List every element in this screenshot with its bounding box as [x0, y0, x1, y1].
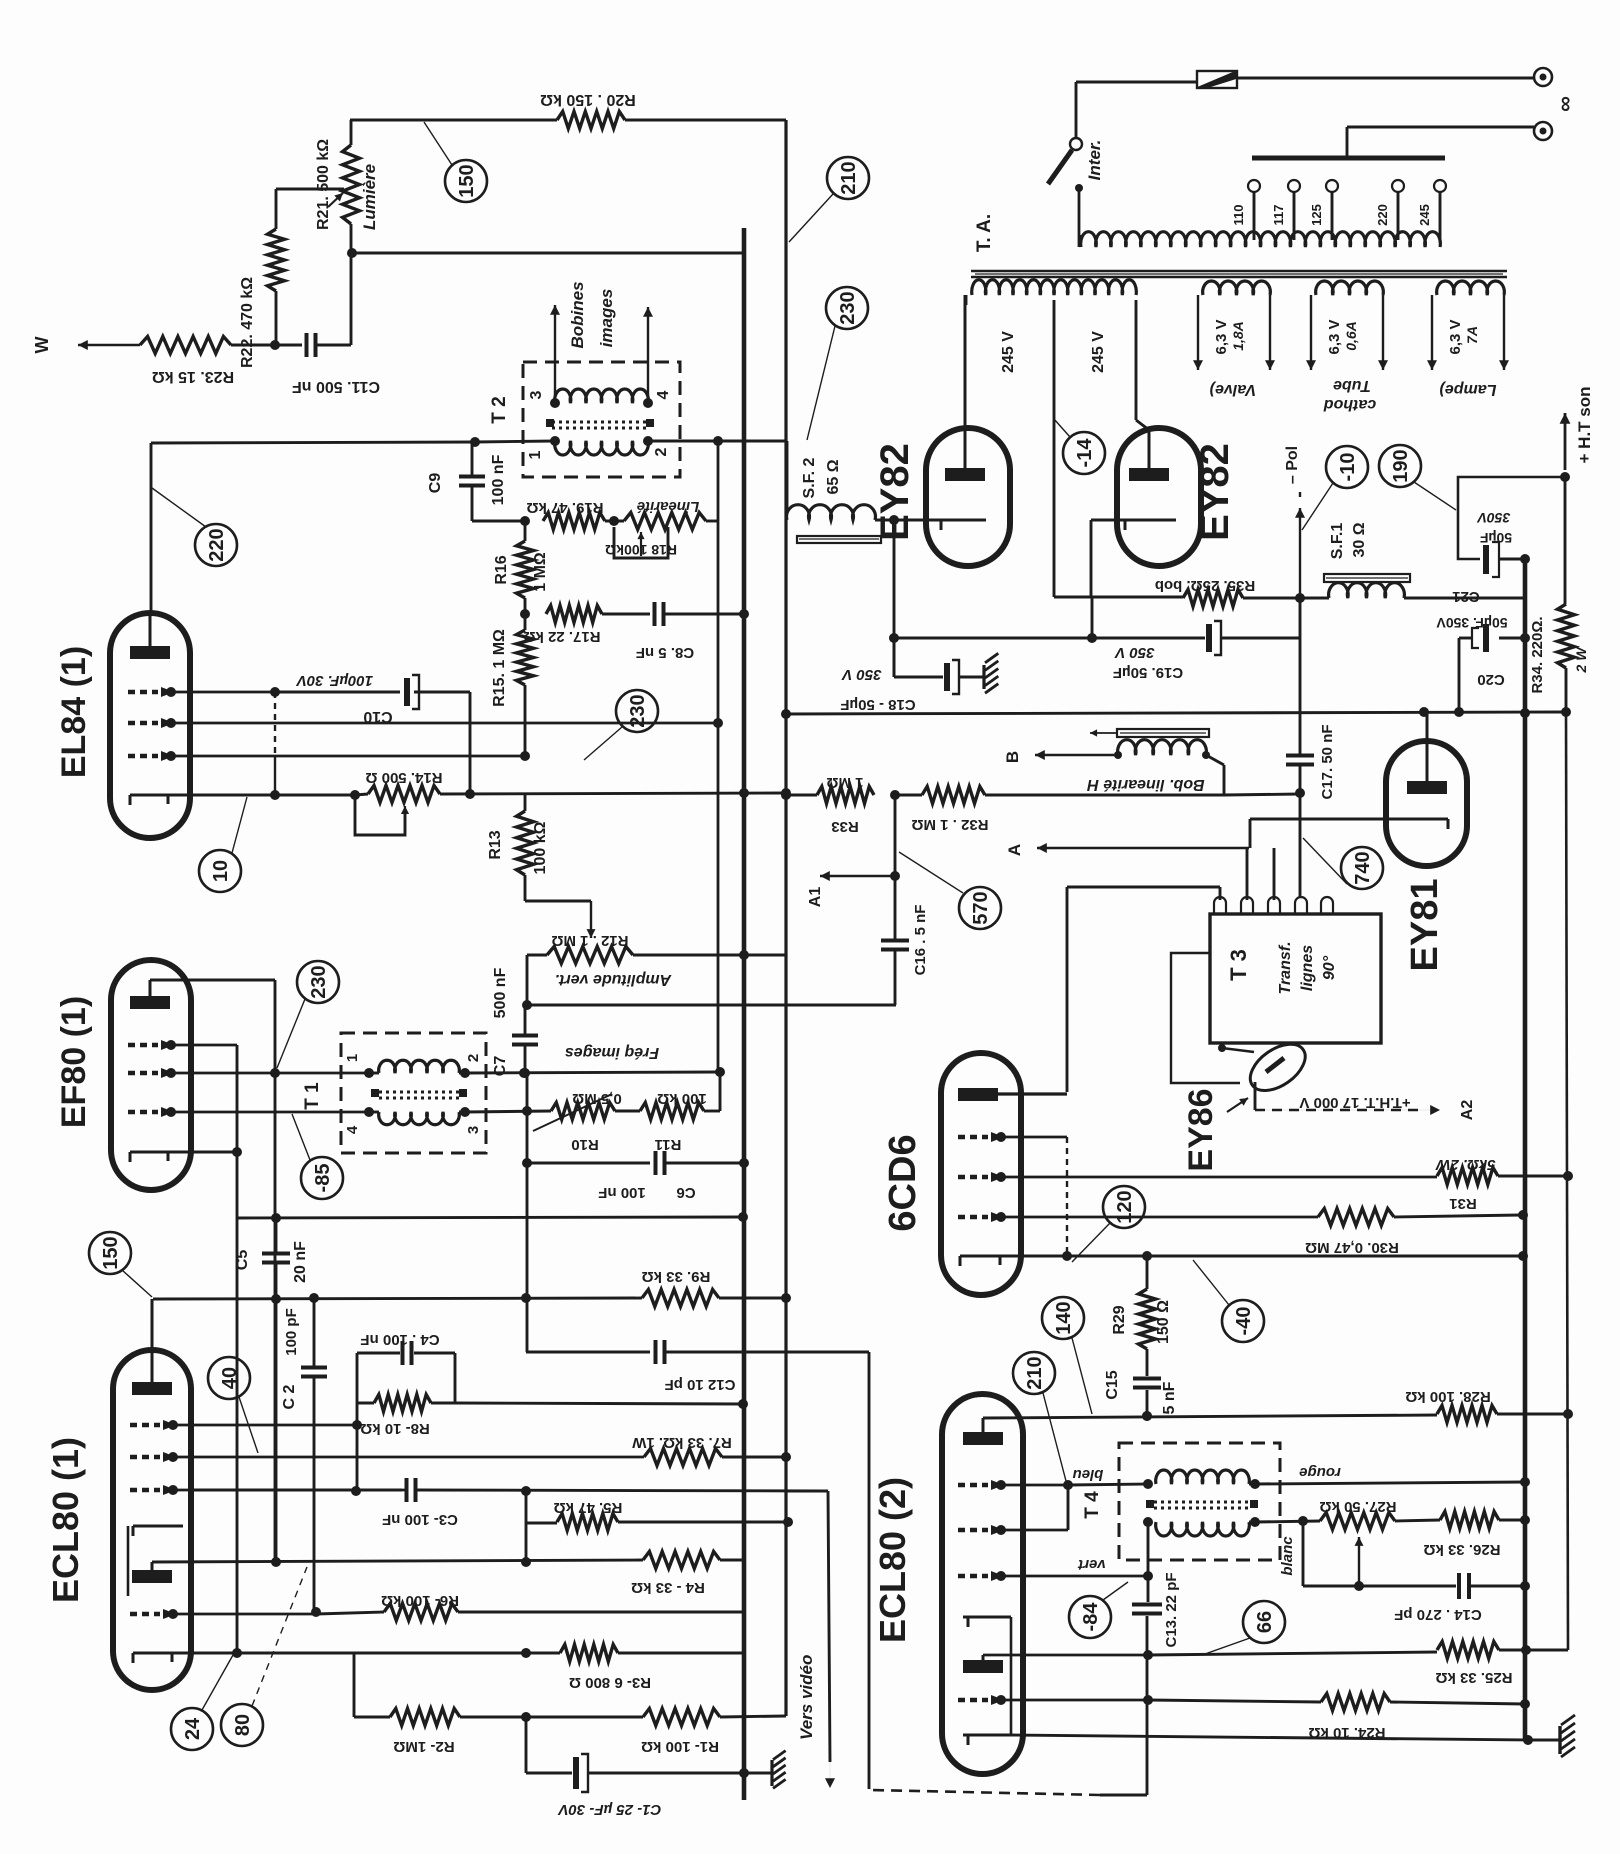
svg-text:3: 3 — [528, 390, 545, 399]
svg-text:vert: vert — [1077, 1556, 1106, 1573]
node junction R21 row — [347, 248, 357, 258]
node R25 bus junction — [1521, 1645, 1531, 1655]
svg-text:B: B — [1003, 751, 1022, 763]
wire C16 bottom — [894, 950, 897, 1005]
node C14 bus junction — [1520, 1581, 1530, 1591]
wire EY82no2 cathode out — [1091, 519, 1125, 522]
wire EY81 cathode out — [1250, 818, 1389, 821]
svg-text:C3- 100 nF: C3- 100 nF — [382, 1511, 458, 1528]
wire C20 leads — [1459, 637, 1472, 640]
svg-text:C21: C21 — [1452, 588, 1480, 605]
wire R2 to R1 — [460, 1716, 643, 1719]
svg-text:-85: -85 — [312, 1164, 334, 1193]
wire g2 link up — [1067, 1485, 1070, 1530]
wire row795 left — [786, 794, 817, 797]
wire g3 row to vers video — [416, 1490, 828, 1491]
circled -85 — [301, 1157, 343, 1199]
svg-text:500 nF: 500 nF — [492, 967, 509, 1018]
svg-text:220: 220 — [206, 528, 228, 561]
node C6 bus junction — [739, 1158, 749, 1168]
node anode row junctions — [1142, 1411, 1152, 1421]
svg-text:T 4: T 4 — [1082, 1491, 1103, 1519]
wire C1 to bus — [588, 1772, 744, 1775]
wire 6CD6 g1 dashed link — [1066, 1137, 1068, 1256]
tube EL84 anode — [130, 646, 170, 659]
capacitor C8 — [653, 602, 657, 626]
node R7 bus junction — [781, 1452, 791, 1462]
svg-text:350 V: 350 V — [840, 666, 881, 683]
tube EF80 cathode — [130, 1151, 237, 1154]
node C5 junctions — [271, 1213, 281, 1223]
wire EF80 anode link — [150, 979, 275, 982]
leader 150 — [424, 122, 452, 165]
circled 140 — [1042, 1297, 1084, 1339]
resistor R23 — [140, 337, 231, 354]
wire SF2 to EY82 cathode — [875, 519, 941, 522]
svg-text:Bobines: Bobines — [568, 281, 587, 348]
wire bleu to T4 — [1068, 1484, 1148, 1485]
potentiometer R18 (Linearite) — [624, 513, 706, 530]
svg-text:C15: C15 — [1104, 1370, 1121, 1399]
wire cathode2 row — [1011, 1735, 1528, 1740]
node C21 top junction — [1560, 472, 1570, 482]
TA tap 110 — [1253, 192, 1256, 240]
resistor R7 — [644, 1449, 722, 1466]
node C20 bus junction — [1520, 633, 1530, 643]
wire R21 junction row — [351, 252, 744, 255]
svg-text:C6: C6 — [676, 1184, 695, 1201]
svg-text:R21. 500 kΩ: R21. 500 kΩ — [315, 139, 332, 230]
svg-text:-10: -10 — [1337, 453, 1359, 482]
svg-text:230: 230 — [627, 694, 649, 727]
svg-text:C1- 25 µF- 30V: C1- 25 µF- 30V — [557, 1801, 662, 1818]
circled 230 (EF80) — [297, 961, 339, 1003]
wire R21 top rail — [350, 119, 557, 122]
resistor R35 — [1183, 590, 1243, 607]
plug terminal top — [1534, 68, 1552, 86]
svg-text:R16: R16 — [493, 555, 510, 584]
capacitor C5 — [262, 1252, 290, 1256]
TA secondary 245V coil — [972, 280, 1137, 295]
fuse — [1197, 71, 1237, 88]
svg-text:R12 . 1 MΩ: R12 . 1 MΩ — [551, 932, 628, 949]
wire bobines images lead 4 — [647, 307, 649, 399]
resistor R20 — [557, 112, 625, 129]
tube ECL80no2 grid1 row — [958, 1483, 988, 1488]
wire C19 to -Pol vertical — [1221, 637, 1300, 640]
svg-text:570: 570 — [970, 891, 992, 924]
node C20 junction — [1454, 707, 1464, 717]
wire T3 pin4 wire — [1300, 897, 1302, 900]
tube EY81 cathode — [1389, 818, 1448, 821]
svg-text:C13. 22 pF: C13. 22 pF — [1163, 1572, 1180, 1647]
resistor R30 — [1318, 1209, 1394, 1226]
wire R5 link down — [525, 1523, 528, 1562]
svg-text:R4 - 33 kΩ: R4 - 33 kΩ — [631, 1579, 705, 1596]
capacitor C19 electrolytic — [1206, 624, 1212, 652]
capacitor C2 — [301, 1366, 327, 1370]
leader -84 — [1103, 1582, 1128, 1600]
svg-text:5kΩ. 2W: 5kΩ. 2W — [1435, 1156, 1496, 1173]
node C7 top junction — [522, 1000, 532, 1010]
node C18 top junction — [889, 633, 899, 643]
capacitor C7 — [512, 1034, 538, 1038]
node R10 left junction — [522, 1106, 532, 1116]
svg-text:C4 . 100 nF: C4 . 100 nF — [360, 1331, 439, 1348]
leader 40 — [239, 1397, 258, 1453]
wire R12 left elbow — [527, 954, 547, 957]
svg-text:C9: C9 — [427, 473, 444, 494]
node R14 right — [465, 789, 475, 799]
node row795 left junction — [781, 790, 791, 800]
svg-text:blanc: blanc — [1279, 1536, 1296, 1576]
wire C21 to bus — [1499, 558, 1525, 561]
node bleu junction — [1063, 1480, 1073, 1490]
node R31 junction — [1563, 1171, 1573, 1181]
svg-text:R7. 33 kΩ. 1W: R7. 33 kΩ. 1W — [631, 1434, 731, 1451]
node g4 junction — [1143, 1695, 1153, 1705]
svg-text:80: 80 — [232, 1714, 254, 1736]
svg-text:4: 4 — [655, 390, 672, 399]
TA 6,3V winding 1 — [1203, 281, 1271, 295]
potentiometer R18 box — [614, 527, 668, 558]
leader 10 — [232, 797, 247, 853]
wire R18 to bus — [706, 520, 718, 523]
leader -40 — [1193, 1260, 1229, 1305]
potentiometer R21 wiper arrow — [328, 193, 343, 207]
wire EL84 cathode row — [275, 794, 355, 797]
wire A1 branch — [894, 795, 897, 940]
node EF80 cathode junction — [232, 1147, 242, 1157]
wire bob-lin right link — [1224, 794, 1300, 795]
coil Bob core slug — [1117, 729, 1209, 737]
tube EY82 no2 cathode — [1125, 519, 1176, 522]
svg-text:EF80 (1): EF80 (1) — [55, 996, 93, 1128]
svg-text:350 V: 350 V — [1113, 644, 1154, 661]
svg-text:100 nF: 100 nF — [490, 454, 507, 505]
wire 6CD6 cathode row — [1021, 1255, 1521, 1258]
circled 80 — [221, 1704, 263, 1746]
bus 150/744 — [742, 228, 747, 1800]
svg-text:bleu: bleu — [1073, 1466, 1104, 1483]
node junction R22/R23/C11 — [270, 340, 280, 350]
wire EY86 bottom lead — [1254, 1082, 1257, 1108]
svg-text:R33: R33 — [831, 818, 859, 835]
transformer T1 dashed box — [341, 1033, 486, 1153]
svg-text:A1: A1 — [807, 887, 824, 908]
circled 10 — [199, 850, 241, 892]
wire R8 node to bus — [455, 1403, 743, 1404]
node row1562 junction — [521, 1557, 531, 1567]
svg-text:A: A — [1005, 844, 1024, 856]
svg-text:C11. 500 nF: C11. 500 nF — [292, 378, 380, 395]
svg-text:100 kΩ: 100 kΩ — [532, 821, 549, 874]
tube ECL80no2 cathode1 — [963, 1616, 1011, 1619]
leader 570 — [899, 852, 963, 893]
wire C14 to bus — [1470, 1585, 1525, 1588]
node rouge bus junction — [1520, 1477, 1530, 1487]
resistor R25 — [1437, 1642, 1499, 1659]
svg-text:cathod: cathod — [1323, 396, 1377, 413]
T1 pins 1-2 dots — [364, 1068, 374, 1078]
wire 570 row — [527, 1004, 896, 1007]
resistor R1 — [643, 1709, 720, 1726]
svg-text:4: 4 — [344, 1125, 361, 1134]
svg-text:R20 . 150 kΩ: R20 . 150 kΩ — [540, 91, 636, 108]
transformer T2 dashed box — [523, 362, 680, 477]
wire SF1 to bus — [1404, 597, 1525, 600]
svg-text:30 Ω: 30 Ω — [1351, 522, 1368, 557]
tube ECL80no2 grid2 row — [958, 1528, 988, 1533]
node R33/R32 junction — [890, 790, 900, 800]
wire 245V right drop — [1135, 300, 1138, 420]
node blanc junction — [1298, 1516, 1308, 1526]
tube EY82 no2 anode — [1129, 468, 1169, 481]
wire switch to fuse — [1075, 82, 1078, 138]
leader -85 — [292, 1114, 310, 1160]
resistor R11 — [640, 1103, 704, 1120]
node A1 junction — [890, 871, 900, 881]
svg-text:-84: -84 — [1080, 1602, 1102, 1632]
wire R24 row — [1148, 1700, 1321, 1702]
wire R5 to bus — [618, 1521, 788, 1524]
svg-text:∞: ∞ — [1552, 96, 1577, 112]
T2 secondary coil pins 3-4 — [555, 389, 649, 403]
svg-text:110: 110 — [1231, 205, 1246, 226]
wire R13 to R12 wiper — [525, 900, 591, 903]
wire C4R8 right edge — [454, 1353, 457, 1403]
wire A arrow — [1037, 847, 1249, 849]
svg-text:65 Ω: 65 Ω — [825, 459, 842, 494]
circled -84 — [1069, 1596, 1111, 1638]
tube EY86 envelope — [1242, 1035, 1313, 1100]
svg-text:ECL80 (2): ECL80 (2) — [872, 1477, 913, 1643]
node R30 bus junction — [1518, 1210, 1528, 1220]
tube EY82 no1 envelope — [926, 428, 1010, 566]
wire R20 to bus 210 — [625, 119, 786, 122]
svg-text:230: 230 — [837, 291, 859, 324]
node bus230 top junction — [713, 436, 723, 446]
wire cathode2 row left — [191, 1652, 560, 1655]
bus HT right thick — [1523, 559, 1528, 1741]
resistor R13 — [524, 794, 527, 811]
leader 24 — [202, 1655, 233, 1710]
svg-text:2 W: 2 W — [1573, 646, 1589, 674]
node 150 rail junctions — [309, 1293, 319, 1303]
svg-text:C10: C10 — [363, 708, 392, 725]
T4 coil2 — [1156, 1522, 1250, 1536]
wire R32 leads — [895, 794, 922, 797]
tube EY82 no1 cathode — [941, 519, 986, 522]
svg-text:R34. 220Ω.: R34. 220Ω. — [1529, 616, 1546, 693]
circled 230 mid-left — [616, 690, 658, 732]
svg-text:+ H.T son: + H.T son — [1575, 387, 1594, 464]
potentiometer R27 — [1320, 1513, 1395, 1530]
wire EY86 loop — [1171, 953, 1240, 1083]
wire blanc row — [1255, 1521, 1320, 1522]
wire left bottom riser — [868, 1352, 871, 1789]
svg-text:ECL80 (1): ECL80 (1) — [45, 1437, 86, 1603]
T2 terminal dots primary — [550, 436, 560, 446]
tube ECL80no2 envelope — [942, 1394, 1023, 1774]
resistor R19 — [543, 513, 605, 530]
svg-text:Lampe): Lampe) — [1440, 381, 1497, 398]
wire R17 to C8 — [602, 613, 650, 616]
tube EF80 grid3 row — [128, 1110, 158, 1115]
node C15 junction — [1142, 1411, 1152, 1421]
svg-text:C17. 50 nF: C17. 50 nF — [1319, 724, 1336, 799]
mains selector bar — [1252, 156, 1445, 161]
tube ECL80no1 anode2 — [132, 1570, 172, 1583]
node C21 bus junction — [1520, 554, 1530, 564]
tube ECL80no1 grid1 row — [130, 1423, 160, 1428]
circled 24 — [171, 1708, 213, 1750]
wire R23 to C11 node — [231, 344, 302, 347]
circled 210 — [827, 157, 869, 199]
svg-text:R1- 100 kΩ: R1- 100 kΩ — [641, 1738, 719, 1755]
tube 6CD6 grid2 row — [958, 1175, 988, 1180]
svg-text:C18 - 50µF: C18 - 50µF — [840, 696, 915, 713]
wire R22 top to R21 node — [276, 188, 344, 191]
leader 150 lower — [122, 1270, 152, 1297]
svg-text:EL84 (1): EL84 (1) — [55, 646, 93, 778]
svg-text:R35. 25Ω. bob: R35. 25Ω. bob — [1155, 577, 1255, 594]
wire bottom dashed link — [872, 1790, 1100, 1795]
tube EF80 envelope — [111, 960, 191, 1190]
svg-text:S.F.1: S.F.1 — [1329, 523, 1346, 560]
TA tap 245 — [1439, 192, 1442, 240]
TA tap 220 — [1397, 192, 1400, 240]
wire R11 up to 230V node — [704, 1110, 720, 1113]
svg-text:R13: R13 — [487, 830, 504, 859]
circled 120 — [1103, 1186, 1145, 1228]
resistor R2 — [390, 1709, 460, 1726]
svg-text:images: images — [597, 289, 616, 348]
tube EL84 grid 1 row — [128, 690, 158, 695]
plug terminal bottom — [1534, 122, 1552, 140]
wire fuse to plug — [1237, 77, 1534, 80]
wire C6 to bus — [665, 1162, 744, 1165]
leader 230 EF80 — [277, 999, 305, 1068]
svg-text:66: 66 — [1254, 1611, 1276, 1633]
svg-text:6,3 V: 6,3 V — [1213, 319, 1230, 354]
svg-text:Linearité: Linearité — [637, 498, 700, 515]
wire R26 to bus — [1499, 1519, 1525, 1522]
svg-text:rouge: rouge — [1299, 1464, 1341, 1481]
leader 230 mid-left — [584, 727, 622, 760]
wire C8 to bus — [664, 613, 744, 616]
svg-text:R22. 470 kΩ: R22. 470 kΩ — [239, 277, 256, 368]
capacitor C11 — [305, 333, 309, 357]
resistor R28 — [1437, 1406, 1497, 1423]
T3 pin bumps — [1214, 897, 1226, 914]
svg-text:245: 245 — [1417, 204, 1432, 226]
wire C4R8 left edge — [356, 1353, 359, 1491]
TA 6,3V winding 2 — [1316, 281, 1384, 295]
switch Inter lever — [1048, 150, 1072, 184]
svg-text:C 2: C 2 — [281, 1384, 298, 1409]
TA tap 117 — [1293, 192, 1296, 240]
wire T3 pin2/3 to A row — [1246, 848, 1249, 900]
svg-text:6,3 V: 6,3 V — [1326, 319, 1343, 354]
wire ground stub left — [744, 1772, 772, 1775]
svg-text:R29: R29 — [1111, 1305, 1128, 1334]
svg-text:1,8A: 1,8A — [1230, 321, 1246, 351]
wire R10-R11 — [615, 1110, 640, 1113]
svg-text:R24. 10 kΩ: R24. 10 kΩ — [1308, 1724, 1385, 1741]
resistor R15 — [524, 614, 527, 630]
wire C21 box — [1458, 477, 1565, 559]
wire R27 bottom loop — [1302, 1521, 1305, 1586]
TA core — [971, 270, 1507, 273]
wire C6 row — [527, 1162, 650, 1165]
capacitor C13 — [1132, 1603, 1162, 1607]
potentiometer R12 — [547, 947, 633, 964]
wire selector to plug — [1347, 126, 1534, 129]
svg-text:– Pol: – Pol — [1284, 446, 1301, 484]
capacitor C18 electrolytic — [944, 663, 950, 691]
wire 6CD6 anode riser — [1066, 887, 1069, 1092]
leader 120 — [1072, 1223, 1110, 1262]
tube EY82 no2 envelope — [1117, 428, 1201, 566]
svg-text:0,6A: 0,6A — [1343, 321, 1359, 351]
wire C19 row — [894, 637, 1205, 640]
node row1218 end — [738, 1212, 748, 1222]
leader 140 — [1072, 1338, 1092, 1414]
svg-text:lignes: lignes — [1299, 945, 1316, 991]
svg-text:R9. 33 kΩ: R9. 33 kΩ — [642, 1268, 711, 1285]
wire C13 bottom drop — [1146, 1655, 1149, 1795]
circled 740 — [1341, 847, 1383, 889]
node -Pol junction — [1295, 593, 1305, 603]
T1 core — [379, 1091, 459, 1094]
svg-text:1 MΩ: 1 MΩ — [826, 774, 863, 791]
svg-text:T. A.: T. A. — [974, 214, 995, 252]
resistor R32 — [922, 787, 985, 804]
choke S.F.1 core — [1324, 574, 1410, 582]
tube ECL80no2 anode2 — [963, 1660, 1003, 1673]
resistor R29 — [1146, 1256, 1149, 1289]
wire EL84 g1 to C10 — [275, 691, 400, 694]
circled 40 — [208, 1357, 250, 1399]
svg-text:100 kΩ: 100 kΩ — [657, 1090, 707, 1107]
wire R35 to SF1 — [1243, 597, 1329, 600]
tube ECL80no2 anode1 — [963, 1432, 1003, 1445]
wire R2 branch — [353, 1653, 356, 1717]
wire R25 to bus — [1499, 1649, 1528, 1652]
bus 230 (x718) — [717, 441, 720, 1072]
capacitor C6 — [654, 1151, 658, 1175]
wire C11 to R21 branch — [315, 344, 351, 347]
coil Bob linearite H — [1118, 740, 1207, 755]
tube EL84 envelope — [110, 613, 190, 838]
potentiometer R27 wiper — [1358, 1537, 1360, 1586]
wire HTson lower corner — [1528, 1649, 1568, 1652]
node cathode bus junctions — [739, 788, 749, 798]
EY86 pointer arrow — [1227, 1098, 1248, 1112]
wire boost row 714 — [786, 712, 1566, 714]
wire R5 branch — [525, 1491, 528, 1523]
node cathode2 junctions — [232, 1648, 242, 1658]
circled 66 — [1243, 1601, 1285, 1643]
leader 80 — [252, 1567, 307, 1706]
tube EF80 anode — [130, 996, 170, 1009]
svg-text:150: 150 — [100, 1236, 122, 1269]
wire R27-R26 — [1395, 1520, 1440, 1521]
svg-text:EY82: EY82 — [1193, 443, 1237, 541]
tube ECL80no2 grid4 row — [958, 1698, 988, 1703]
svg-text:Valve): Valve) — [1210, 381, 1257, 398]
